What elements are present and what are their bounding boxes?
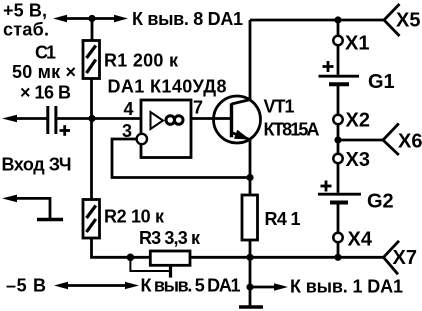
node junction emitter feedback bbox=[246, 174, 253, 181]
svg-text:R1 200 к: R1 200 к bbox=[104, 51, 179, 71]
svg-text:G1: G1 bbox=[368, 71, 395, 93]
svg-text:4: 4 bbox=[124, 99, 134, 119]
op-amp inverting bubble pin3 bbox=[137, 134, 147, 144]
ground input bbox=[37, 218, 63, 221]
svg-text:R2 10 к: R2 10 к bbox=[104, 207, 165, 227]
resistor R1 bbox=[83, 41, 100, 79]
battery G1 bbox=[319, 76, 360, 84]
wire ground drop bbox=[249, 257, 252, 306]
wire to X6 bbox=[338, 139, 383, 142]
connector pin X3 bbox=[333, 154, 342, 163]
arrowhead left +5V bbox=[53, 15, 67, 22]
node junction input R1 R2 bbox=[88, 115, 95, 122]
node junction top R1 bbox=[88, 15, 95, 22]
arrowhead input left bbox=[2, 115, 17, 123]
svg-text:Вход ЗЧ: Вход ЗЧ bbox=[2, 155, 72, 175]
node junction R4 bottom bbox=[246, 254, 253, 261]
wire +5V annotation double arrow bbox=[58, 17, 122, 20]
node junction R2 R3 tap bbox=[127, 253, 135, 261]
svg-text:–5 В: –5 В bbox=[6, 276, 46, 296]
svg-text:G2: G2 bbox=[367, 191, 394, 213]
svg-text:R3 3,3 к: R3 3,3 к bbox=[139, 228, 201, 248]
connector X5 bbox=[384, 4, 400, 36]
resistor R4 bbox=[242, 195, 258, 240]
svg-text:К выв. 5 DA1: К выв. 5 DA1 bbox=[141, 276, 241, 296]
resistor R2 bbox=[83, 200, 100, 239]
node junction X7 bbox=[334, 254, 341, 261]
capacitor C1 bbox=[48, 106, 56, 134]
svg-text:С1: С1 bbox=[35, 43, 56, 63]
wire input ground stub bbox=[14, 198, 50, 218]
wire R1 top lead bbox=[91, 19, 94, 40]
resistor R3 trimmer body bbox=[150, 251, 190, 265]
wire X4 to bottom bbox=[337, 242, 340, 257]
wire R3 tap loop bbox=[130, 257, 170, 271]
svg-text:X2: X2 bbox=[346, 110, 370, 132]
connector pin X2 bbox=[333, 115, 342, 124]
ground bottom bbox=[239, 305, 263, 308]
svg-text:стаб.: стаб. bbox=[3, 20, 49, 40]
svg-text:× 16 В: × 16 В bbox=[20, 83, 71, 103]
svg-text:7: 7 bbox=[193, 98, 203, 118]
connector pin X1 bbox=[333, 36, 342, 45]
wire R2 bottom corner to R3 bbox=[92, 199, 151, 257]
wire emitter down bbox=[249, 139, 252, 178]
wire G1 to X2 bbox=[337, 86, 340, 115]
svg-text:VT1: VT1 bbox=[264, 97, 295, 117]
node junction pin1 arrow bbox=[246, 283, 253, 290]
wire collector up bbox=[249, 20, 252, 100]
wire X1 to G1 bbox=[337, 45, 340, 75]
svg-text:X3: X3 bbox=[346, 149, 370, 171]
wire R3 right to X7 bbox=[190, 256, 384, 259]
svg-text:X5: X5 bbox=[396, 10, 420, 32]
wire pin7 to base bbox=[191, 117, 231, 120]
arrowhead right to pin5 bbox=[125, 282, 139, 289]
svg-text:КТ815А: КТ815А bbox=[264, 120, 320, 140]
wire X3 to G2 bbox=[337, 163, 340, 193]
wire top right to X5 bbox=[250, 19, 384, 22]
arrowhead input ground bbox=[2, 195, 17, 203]
trimmer R3 wiper bbox=[169, 265, 172, 277]
transistor VT1 bbox=[214, 96, 261, 143]
arrowhead right to pin8 bbox=[114, 15, 128, 22]
op-amp infinity bbox=[166, 116, 183, 125]
svg-text:К выв. 8 DA1: К выв. 8 DA1 bbox=[132, 9, 243, 29]
wire X1 top lead bbox=[337, 20, 340, 36]
svg-text:50 мк ×: 50 мк × bbox=[12, 62, 76, 82]
node junction collector X1 bbox=[334, 16, 341, 23]
svg-text:X7: X7 bbox=[393, 247, 417, 269]
wire R1 bottom to R2 top vertical bbox=[90, 79, 93, 201]
svg-text:R4 1: R4 1 bbox=[265, 209, 301, 229]
connector pin X4 bbox=[333, 233, 342, 242]
wire -5V annotation double arrow bbox=[59, 284, 133, 287]
svg-text:+5 В,: +5 В, bbox=[3, 1, 47, 21]
arrowhead emitter bbox=[234, 130, 250, 140]
label C1 plus bbox=[60, 125, 71, 136]
arrowhead left -5V bbox=[54, 282, 68, 289]
svg-text:X4: X4 bbox=[348, 229, 373, 251]
battery G2 bbox=[318, 194, 361, 202]
wire feedback pin3 loop bbox=[112, 139, 250, 178]
svg-text:DA1 К140УД8: DA1 К140УД8 bbox=[108, 77, 227, 97]
svg-text:X6: X6 bbox=[398, 131, 422, 153]
connector X7 bbox=[384, 241, 400, 274]
svg-text:К выв. 1 DA1: К выв. 1 DA1 bbox=[290, 277, 403, 297]
svg-text:X1: X1 bbox=[345, 33, 369, 55]
wire input left segment bbox=[14, 117, 47, 120]
label G2 plus bbox=[321, 181, 332, 192]
wire C1 to opamp pin4 bbox=[57, 117, 141, 120]
wire R4 bottom bbox=[249, 240, 252, 257]
arrowhead pin1 bbox=[274, 283, 288, 291]
op-amp U1 body bbox=[141, 100, 191, 158]
wire G2 to X4 bbox=[337, 204, 340, 233]
wire X2 to X6 node bbox=[337, 124, 340, 154]
wire arrow to pin1 bbox=[252, 286, 276, 289]
node junction X6 bbox=[334, 136, 341, 143]
wire emitter node to R4 bbox=[249, 178, 252, 196]
connector X6 bbox=[383, 124, 399, 156]
op-amp triangle bbox=[151, 112, 164, 129]
label G1 plus bbox=[323, 61, 334, 72]
